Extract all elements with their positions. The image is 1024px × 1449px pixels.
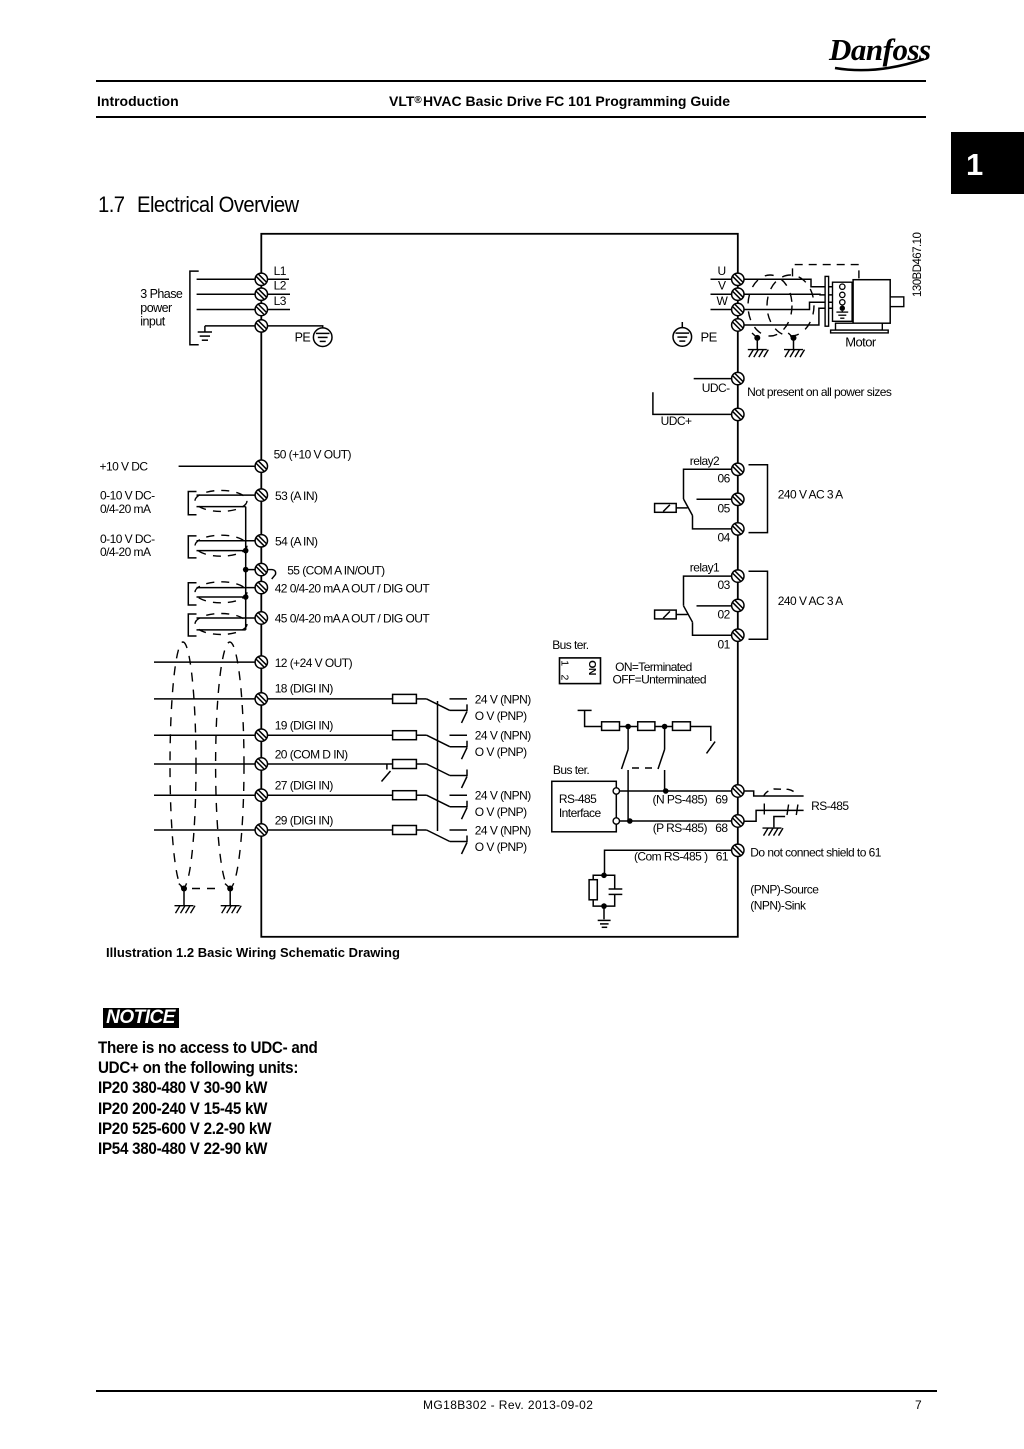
rc capacitor	[604, 875, 615, 889]
junction 68	[627, 818, 633, 824]
terminal L2	[255, 288, 267, 300]
wire 19 internal	[268, 734, 393, 736]
svg-text:Not present on all power sizes: Not present on all power sizes	[747, 385, 892, 399]
dashed frame over motor	[793, 265, 859, 279]
terminal UDC-	[732, 372, 744, 384]
svg-text:UDC-: UDC-	[702, 381, 730, 395]
terminal 05	[732, 493, 744, 505]
svg-text:12 (+24 V OUT): 12 (+24 V OUT)	[275, 656, 353, 670]
svg-text:V: V	[718, 279, 726, 293]
rs485 gnd tap	[774, 817, 785, 828]
svg-text:01: 01	[718, 637, 731, 651]
wire 12	[154, 661, 255, 663]
rs485 tick 3	[796, 805, 798, 816]
svg-text:O V (PNP): O V (PNP)	[475, 805, 527, 819]
chassis ground left	[175, 906, 196, 914]
stem gnd right	[229, 889, 231, 906]
bus termination network	[578, 710, 716, 821]
svg-text:UDC+: UDC+	[661, 414, 692, 428]
svg-text:relay2: relay2	[690, 454, 720, 468]
digital row 19	[154, 731, 467, 760]
analog group 45	[188, 614, 255, 636]
wire 27 external	[154, 794, 255, 796]
relay2 contact 05	[697, 498, 732, 500]
svg-text:PE: PE	[295, 331, 311, 345]
relay2 contact 04	[693, 516, 732, 529]
motor wires	[711, 279, 840, 325]
wire 54 return	[197, 550, 246, 552]
wire U	[744, 279, 840, 286]
svg-text:20 (COM D IN): 20 (COM D IN)	[275, 747, 348, 761]
svg-text:45 0/4-20 mA A OUT / DIG OUT: 45 0/4-20 mA A OUT / DIG OUT	[275, 612, 431, 626]
bracket 42	[188, 583, 196, 605]
rs485 shield arc	[764, 789, 797, 797]
wire 19 external	[154, 734, 255, 736]
svg-text:O V (PNP): O V (PNP)	[475, 745, 527, 759]
svg-text:Interface: Interface	[559, 806, 602, 820]
junction dot 54	[243, 548, 249, 554]
svg-text:power: power	[140, 301, 172, 315]
rs485 tick 2	[787, 805, 789, 816]
wire 69	[620, 790, 732, 792]
relay1 coil	[655, 610, 677, 619]
wire 18 external	[154, 698, 255, 700]
motor chassis gnd left	[748, 350, 769, 358]
svg-text:(PNP)-Source: (PNP)-Source	[750, 883, 819, 897]
wire 20 internal	[268, 763, 393, 765]
relay1 contact 03	[684, 576, 732, 606]
svg-text:50 (+10 V OUT): 50 (+10 V OUT)	[274, 447, 352, 461]
motor gnd stem right	[793, 338, 795, 350]
svg-text:U: U	[718, 264, 726, 278]
wire 53 return	[197, 506, 246, 508]
wire 53 signal	[197, 494, 256, 496]
illustration caption	[106, 945, 400, 960]
label 3 Phase power input	[140, 287, 183, 329]
junction dot 42	[243, 594, 249, 600]
svg-text:O V (PNP): O V (PNP)	[475, 709, 527, 723]
terminal 27	[255, 789, 267, 801]
terminal 54	[255, 535, 267, 547]
label 0-10V a	[100, 488, 155, 559]
terminal PE right	[732, 319, 744, 331]
footer center	[423, 1398, 593, 1412]
header center text	[389, 93, 730, 109]
motor chassis gnd right	[784, 350, 805, 358]
svg-text:0/4-20 mA: 0/4-20 mA	[100, 502, 151, 516]
resistor R1	[602, 722, 620, 731]
box pin 69	[613, 788, 619, 794]
svg-text:(N PS-485) 69: (N PS-485) 69	[653, 793, 729, 807]
svg-text:18 (DIGI IN): 18 (DIGI IN)	[275, 682, 334, 696]
wire PE input	[205, 325, 256, 327]
svg-text:W: W	[717, 294, 729, 308]
+5V tee	[578, 709, 592, 711]
terminal 18	[255, 693, 267, 705]
wire 61	[605, 850, 732, 875]
svg-text:55 (COM A IN/OUT): 55 (COM A IN/OUT)	[287, 563, 385, 577]
wire 45 signal	[197, 617, 256, 619]
wire UDC+	[653, 392, 732, 414]
DIP switch box	[560, 658, 601, 684]
ground input	[204, 326, 206, 332]
terminal L1	[255, 273, 267, 285]
svg-text:input: input	[140, 315, 165, 329]
motor cable shield loop A	[748, 275, 792, 336]
svg-text:02: 02	[718, 608, 731, 622]
stub L3	[268, 309, 291, 311]
svg-text:RS-485: RS-485	[559, 792, 597, 806]
svg-text:54 (A IN): 54 (A IN)	[275, 535, 318, 549]
terminal 20	[255, 758, 267, 770]
wire 42 signal	[197, 587, 256, 589]
shield 54	[195, 535, 247, 556]
svg-text:0-10 V DC-: 0-10 V DC-	[100, 532, 155, 546]
notice body	[98, 1038, 317, 1159]
relay1	[655, 571, 768, 639]
wire PE motor	[744, 308, 839, 325]
svg-text:19 (DIGI IN): 19 (DIGI IN)	[275, 719, 334, 733]
svg-text:42 0/4-20 mA A OUT / DIG OUT: 42 0/4-20 mA A OUT / DIG OUT	[275, 581, 431, 595]
svg-text:24 V (NPN): 24 V (NPN)	[475, 692, 531, 706]
gang link dashes	[632, 767, 659, 769]
terminal 53	[255, 489, 267, 501]
svg-text:L3: L3	[274, 294, 287, 308]
svg-text:(NPN)-Sink: (NPN)-Sink	[750, 899, 807, 913]
wire 27 internal	[268, 794, 393, 796]
PE symbol right stem	[681, 322, 683, 328]
filter box 20	[393, 760, 417, 769]
PE symbol right	[673, 328, 692, 347]
relay1 blade	[684, 606, 693, 622]
svg-text:0/4-20 mA: 0/4-20 mA	[100, 545, 151, 559]
svg-text:+10 V DC: +10 V DC	[100, 460, 149, 474]
terminal V	[732, 288, 744, 300]
svg-text:Bus ter.: Bus ter.	[552, 638, 589, 652]
digital row 18	[154, 694, 467, 723]
junction 69	[663, 788, 669, 794]
svg-text:Motor: Motor	[845, 335, 877, 350]
relay2 contact 06	[684, 469, 732, 499]
junction dot 55	[243, 567, 249, 573]
svg-text:0-10 V DC-: 0-10 V DC-	[100, 488, 155, 502]
header left text	[97, 93, 179, 109]
svg-text:(Com RS-485 ) 61: (Com RS-485 ) 61	[634, 850, 729, 864]
svg-text:RS-485: RS-485	[811, 799, 849, 813]
shield 53	[195, 490, 247, 511]
terminal 02	[732, 599, 744, 611]
footer page	[915, 1398, 922, 1412]
wire PE symbol left	[268, 326, 323, 328]
svg-text:OFF=Unterminated: OFF=Unterminated	[613, 672, 706, 686]
terminal 12	[255, 656, 267, 668]
multicore cable left loop	[170, 642, 196, 888]
svg-text:130BD467.10: 130BD467.10	[912, 233, 924, 297]
wire 68	[620, 820, 732, 822]
svg-text:53 (A IN): 53 (A IN)	[275, 489, 318, 503]
stub U	[711, 278, 732, 280]
rs485 out wire 68	[744, 810, 804, 821]
relay1 contact 02	[697, 605, 732, 607]
svg-text:L2: L2	[274, 279, 287, 293]
wire +10V DC	[179, 465, 256, 467]
svg-text:Do not connect shield to 61: Do not connect shield to 61	[750, 845, 881, 859]
shield 42	[195, 582, 247, 603]
svg-text:24 V (NPN): 24 V (NPN)	[475, 823, 531, 837]
digital common bus	[437, 701, 439, 831]
svg-text:1: 1	[559, 660, 571, 666]
junction R1	[625, 724, 631, 730]
filter box 27	[393, 791, 417, 800]
motor terminal plate	[825, 276, 829, 326]
header rule top	[96, 80, 926, 82]
term switch 2	[664, 727, 666, 750]
terminal 61	[732, 844, 744, 856]
svg-text:06: 06	[718, 471, 731, 485]
svg-text:24 V (NPN): 24 V (NPN)	[475, 729, 531, 743]
resistor R3	[673, 722, 691, 731]
section heading 1.7 Electrical Overview	[98, 192, 124, 218]
motor shield dot left	[754, 335, 760, 341]
svg-text:29 (DIGI IN): 29 (DIGI IN)	[275, 813, 334, 827]
stub V	[711, 293, 732, 295]
svg-text:05: 05	[718, 502, 731, 516]
wire L1	[197, 278, 256, 280]
shield 45	[195, 614, 247, 635]
stub L2	[268, 293, 291, 295]
wire 18 internal	[268, 698, 393, 700]
motor terminal box	[833, 282, 853, 321]
analog group 42	[188, 583, 255, 605]
rs485 chassis gnd	[763, 828, 784, 836]
terminal 45	[255, 612, 267, 624]
svg-text:27 (DIGI IN): 27 (DIGI IN)	[275, 779, 334, 793]
wire L2	[197, 293, 256, 295]
terminal UDC+	[732, 408, 744, 420]
wire 29 internal	[268, 829, 393, 831]
wire 29 external	[154, 829, 255, 831]
svg-text:2: 2	[559, 675, 571, 681]
motor pin V	[840, 292, 845, 297]
wire 54 signal	[197, 540, 256, 542]
header rule bottom	[96, 116, 926, 118]
svg-text:240 V AC 3 A: 240 V AC 3 A	[778, 594, 843, 608]
motor gnd stem left	[756, 338, 758, 350]
svg-text:Bus ter.: Bus ter.	[553, 763, 590, 777]
motor shield dot right	[791, 335, 797, 341]
motor earth	[836, 311, 848, 318]
motor pin PE	[840, 306, 845, 311]
filter box 29	[393, 826, 417, 835]
stub W	[711, 309, 732, 311]
svg-text:240 V AC 3 A: 240 V AC 3 A	[778, 488, 843, 502]
terminal 42	[255, 581, 267, 593]
cable shield dot left	[181, 886, 187, 892]
footer rule	[96, 1390, 937, 1392]
rc earth	[603, 906, 605, 919]
input cable bracket	[190, 271, 199, 345]
stub L1	[268, 278, 290, 280]
terminal 03	[732, 570, 744, 582]
rc top junction	[601, 873, 607, 879]
terminal L3	[255, 303, 267, 315]
rc resistor	[593, 875, 604, 879]
motor shaft	[890, 297, 904, 307]
drive enclosure box	[261, 234, 738, 937]
chapter tab 1	[951, 132, 1024, 194]
chassis ground right	[221, 906, 242, 914]
digital row 27	[154, 791, 467, 820]
RS-485 interface box	[552, 781, 617, 832]
bracket 45	[188, 614, 196, 636]
motor pin W	[840, 300, 845, 305]
relay1 contact 01	[693, 622, 732, 635]
svg-text:03: 03	[718, 578, 731, 592]
relay1 bracket	[749, 571, 768, 639]
wire L3	[197, 309, 256, 311]
relay2 bracket	[749, 465, 768, 533]
digital row 29	[154, 826, 467, 855]
box pin 68	[613, 818, 619, 824]
analog group 53	[188, 492, 255, 515]
motor base plate	[831, 330, 889, 333]
wire 45 return	[197, 629, 246, 631]
cable shield dot right	[227, 886, 233, 892]
wire 20 external	[154, 763, 255, 765]
open switch branch	[690, 727, 710, 742]
svg-text:O V (PNP): O V (PNP)	[475, 840, 527, 854]
digital row 20 com	[154, 760, 467, 789]
terminal U	[732, 273, 744, 285]
common bus analog	[245, 507, 247, 630]
svg-text:(P RS-485) 68: (P RS-485) 68	[653, 821, 729, 835]
terminal 29	[255, 824, 267, 836]
terminal W	[732, 303, 744, 315]
terminal 19	[255, 729, 267, 741]
svg-text:ON: ON	[586, 660, 598, 675]
bracket 54	[188, 536, 196, 558]
motor base	[836, 323, 883, 330]
terminal 50	[255, 460, 267, 472]
relay2 coil	[655, 504, 677, 513]
svg-text:04: 04	[718, 530, 731, 544]
wire UDC-	[694, 378, 732, 380]
motor pin U	[840, 284, 845, 289]
relay2 blade	[684, 499, 693, 516]
motor cable shield loop B	[767, 275, 814, 336]
term switch 1	[627, 727, 629, 750]
stem gnd left	[183, 889, 185, 906]
terminal 69	[732, 785, 744, 797]
wire W	[744, 302, 840, 309]
svg-text:relay1: relay1	[690, 561, 720, 575]
PE symbol left	[313, 328, 332, 347]
filter box 18	[393, 694, 417, 703]
junction R2	[662, 724, 668, 730]
svg-text:PE: PE	[701, 330, 718, 345]
multicore cable right loop	[216, 642, 244, 888]
analog group 54	[188, 536, 255, 558]
terminal 04	[732, 523, 744, 535]
terminal 55	[255, 563, 267, 575]
switch mark 55	[268, 570, 276, 579]
terminal 06	[732, 463, 744, 475]
wire 55	[246, 569, 256, 571]
terminal 68	[732, 815, 744, 827]
NOTICE box	[103, 1008, 179, 1028]
rs485 tick 1	[763, 804, 765, 815]
relay2	[655, 465, 768, 533]
wire V	[744, 293, 840, 296]
rc bottom junction	[601, 903, 607, 909]
motor body	[853, 280, 890, 324]
Danfoss logo	[825, 28, 933, 80]
resistor R2	[638, 722, 655, 731]
terminal 01	[732, 629, 744, 641]
bracket 53	[188, 492, 196, 515]
wire 42 return	[197, 596, 246, 598]
shield link dashes	[192, 888, 222, 890]
svg-text:24 V (NPN): 24 V (NPN)	[475, 789, 531, 803]
terminal PE left	[255, 320, 267, 332]
filter box 19	[393, 731, 417, 740]
svg-text:3 Phase: 3 Phase	[140, 287, 183, 301]
svg-text:L1: L1	[274, 264, 287, 278]
rs485 out wire 69	[744, 791, 804, 796]
